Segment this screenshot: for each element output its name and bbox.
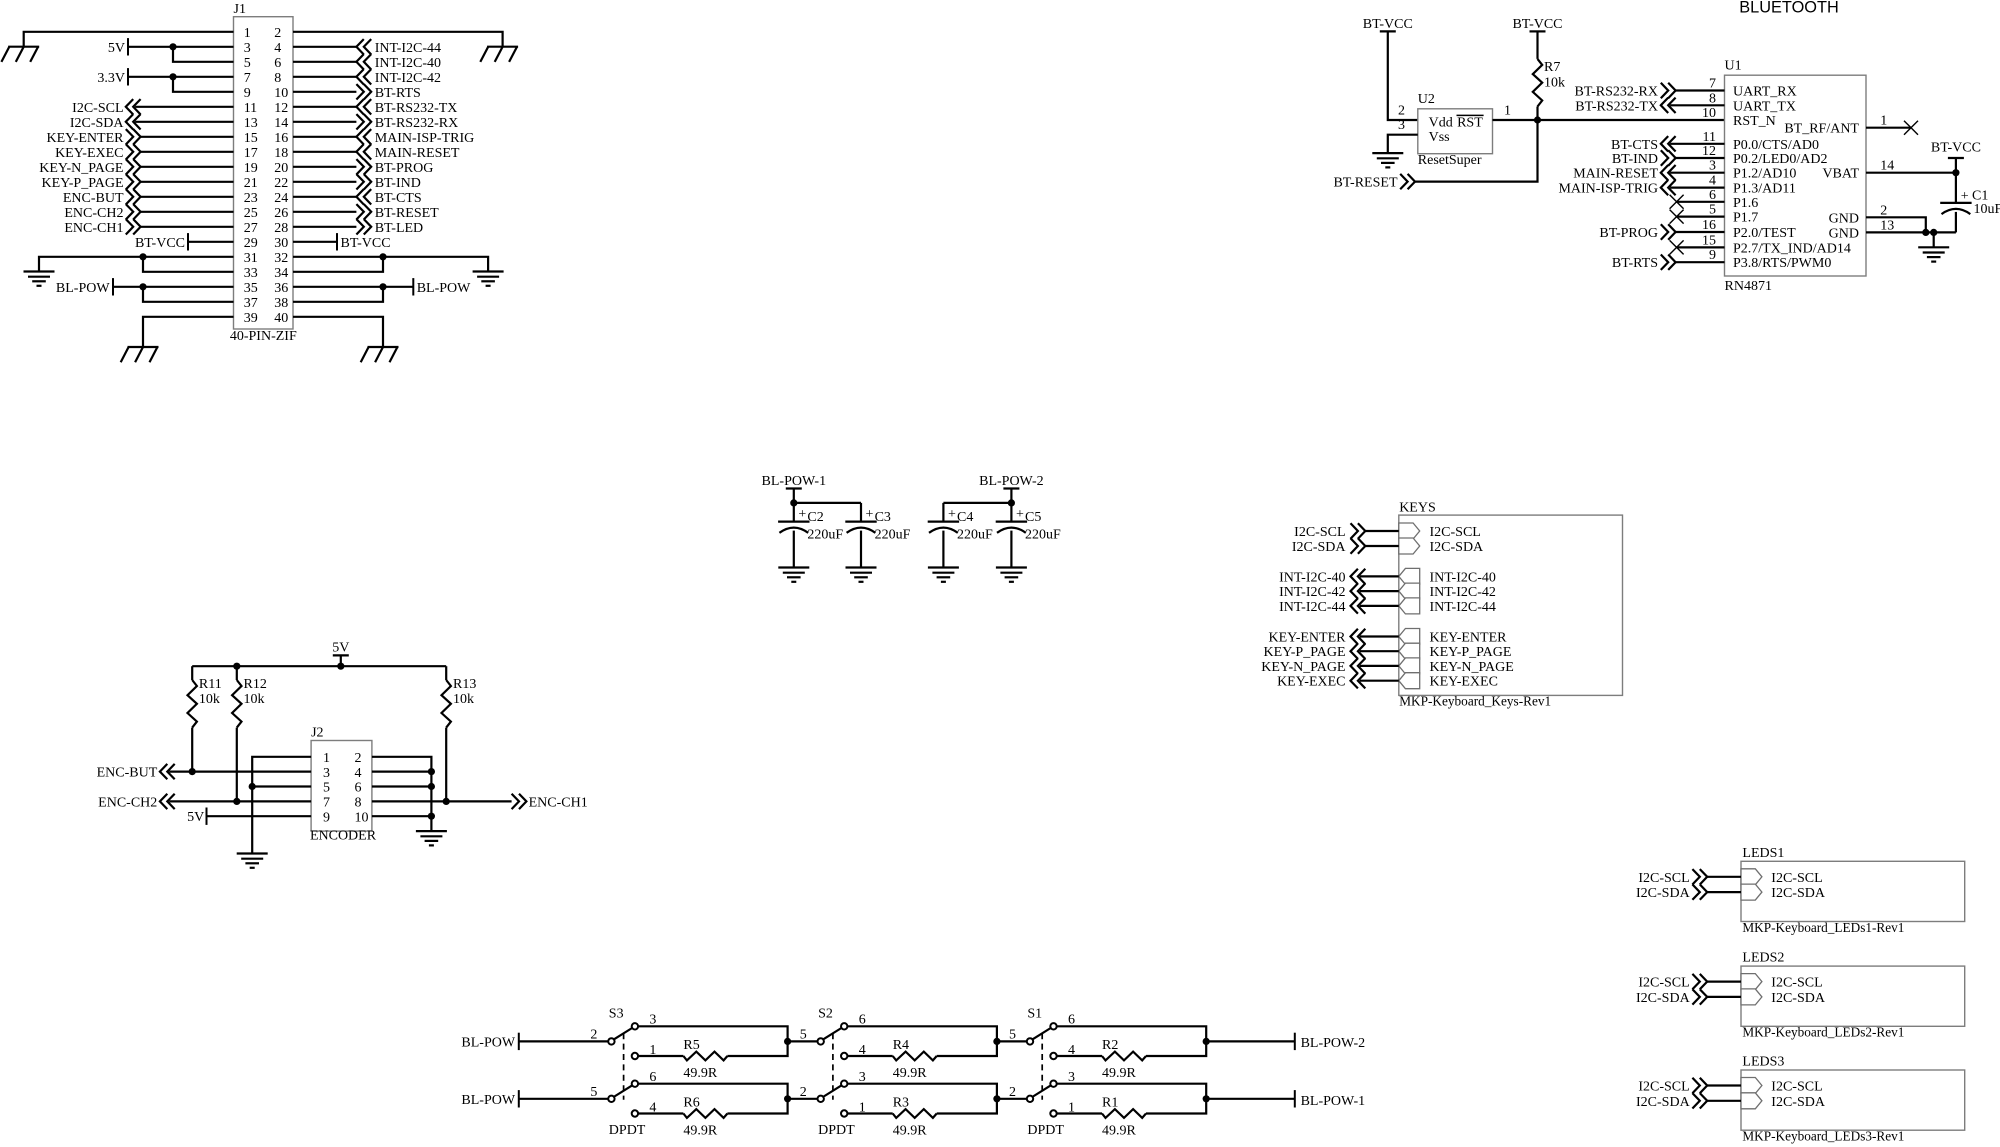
wire INT-I2C-42 to KEYS xyxy=(1360,590,1399,592)
resistor R3 49.9R xyxy=(847,1095,997,1138)
svg-text:R11: R11 xyxy=(199,677,222,692)
svg-text:49.9R: 49.9R xyxy=(683,1123,718,1138)
svg-text:ENC-CH2: ENC-CH2 xyxy=(64,206,123,221)
svg-text:INT-I2C-42: INT-I2C-42 xyxy=(1279,585,1345,600)
wire I2C-SCL to LEDS2 xyxy=(1707,980,1741,982)
svg-text:R6: R6 xyxy=(683,1095,699,1110)
svg-text:P2.7/TX_IND/AD14: P2.7/TX_IND/AD14 xyxy=(1733,241,1851,256)
global label I2C-SCL at LEDS1 xyxy=(1638,869,1707,886)
svg-text:11: 11 xyxy=(1703,130,1716,145)
svg-text:INT-I2C-44: INT-I2C-44 xyxy=(1279,600,1345,615)
junction S1 bottom output xyxy=(1203,1095,1210,1102)
svg-text:C4: C4 xyxy=(957,510,973,525)
svg-text:BL-POW: BL-POW xyxy=(417,281,471,296)
chassis ground top right xyxy=(480,47,518,62)
ground below C1 xyxy=(1918,232,1949,261)
svg-text:P1.6: P1.6 xyxy=(1733,196,1758,211)
wire I2C-SDA to J1 xyxy=(135,121,233,123)
svg-text:R13: R13 xyxy=(453,677,476,692)
wire MAIN-ISP-TRIG to U1 xyxy=(1670,187,1724,189)
svg-text:49.9R: 49.9R xyxy=(893,1066,928,1081)
wire KEY-EXEC to J1 xyxy=(141,151,234,153)
junction S2 bottom output xyxy=(993,1095,1000,1102)
sheet pin I2C-SCL on KEYS xyxy=(1399,523,1481,540)
svg-text:+: + xyxy=(798,507,806,522)
capacitor C1 10uF xyxy=(1940,173,2000,233)
junction RST node xyxy=(1534,116,1541,123)
wire J1 pins 32,34 to ground xyxy=(293,257,488,272)
svg-text:ENC-CH2: ENC-CH2 xyxy=(98,795,157,810)
junction S1 top output xyxy=(1203,1038,1210,1045)
global label ENC-BUT at encoder xyxy=(97,764,175,781)
ground below C2 xyxy=(778,568,809,582)
sheet LEDS1 MKP-Keyboard_LEDs1-Rev1 xyxy=(1741,846,1965,936)
svg-text:P1.3/AD11: P1.3/AD11 xyxy=(1733,182,1796,197)
svg-text:R5: R5 xyxy=(683,1038,699,1053)
wire BL-POW to J1 pins 35,37 xyxy=(113,287,234,302)
global label MAIN-ISP-TRIG at U1 xyxy=(1558,180,1675,197)
sheet pin I2C-SDA on KEYS xyxy=(1399,538,1484,555)
svg-text:6: 6 xyxy=(649,1070,656,1085)
svg-text:I2C-SCL: I2C-SCL xyxy=(1771,1080,1822,1095)
svg-text:BT-RS232-TX: BT-RS232-TX xyxy=(1575,99,1658,114)
wire BT-LED to J1 xyxy=(293,226,356,228)
global label BT-RTS at U1 xyxy=(1612,255,1676,272)
global label KEY-EXEC at KEYS xyxy=(1277,673,1365,690)
svg-text:5V: 5V xyxy=(108,41,125,56)
sheet pin INT-I2C-42 on KEYS xyxy=(1399,583,1496,600)
svg-text:18: 18 xyxy=(274,146,288,161)
svg-text:16: 16 xyxy=(1702,218,1716,233)
svg-text:UART_RX: UART_RX xyxy=(1733,85,1797,100)
wire J1 pin 39 to chassis ground xyxy=(143,317,234,347)
svg-text:40: 40 xyxy=(274,311,288,326)
svg-text:220uF: 220uF xyxy=(1025,528,1061,543)
wire U1 pin 13 to ground net xyxy=(1866,231,1956,233)
svg-text:MKP-Keyboard_LEDs2-Rev1: MKP-Keyboard_LEDs2-Rev1 xyxy=(1742,1026,1904,1041)
svg-text:R2: R2 xyxy=(1102,1038,1118,1053)
svg-text:I2C-SCL: I2C-SCL xyxy=(1430,525,1481,540)
global label KEY-ENTER at KEYS xyxy=(1269,629,1366,646)
svg-text:KEY-N_PAGE: KEY-N_PAGE xyxy=(39,161,123,176)
wire 3.3V to J1 pins 7 and 9 xyxy=(128,77,234,92)
global label BT-RTS at J1 right xyxy=(356,84,420,101)
svg-text:I2C-SDA: I2C-SDA xyxy=(1636,1095,1691,1110)
global label INT-I2C-40 at KEYS xyxy=(1279,569,1365,586)
wire BT-RESET to RST node xyxy=(1415,120,1538,182)
svg-text:13: 13 xyxy=(1880,218,1894,233)
svg-text:INT-I2C-42: INT-I2C-42 xyxy=(1430,585,1496,600)
svg-text:INT-I2C-40: INT-I2C-40 xyxy=(1430,570,1496,585)
global label ENC-CH1 xyxy=(512,794,588,811)
sheet pin I2C-SDA on LEDS3 xyxy=(1741,1093,1826,1110)
global label MAIN-RESET at U1 xyxy=(1573,165,1675,182)
junction 5V rail at R12 xyxy=(233,663,240,670)
wire 5V to J1 pins 3 and 5 xyxy=(128,47,234,62)
svg-text:I2C-SDA: I2C-SDA xyxy=(1771,991,1826,1006)
svg-text:P1.7: P1.7 xyxy=(1733,211,1758,226)
svg-text:I2C-SCL: I2C-SCL xyxy=(1638,871,1689,886)
global label I2C-SDA at LEDS3 xyxy=(1636,1093,1707,1110)
U1 pin 5 P1.7 xyxy=(1709,203,1758,226)
capacitor C4 220uF xyxy=(928,503,993,568)
svg-text:VBAT: VBAT xyxy=(1822,167,1859,182)
ground symbol left of J1 xyxy=(24,272,55,286)
sheet pin I2C-SCL on LEDS2 xyxy=(1741,974,1823,991)
wire ENC-BUT to J1 xyxy=(141,196,234,198)
svg-text:Vss: Vss xyxy=(1429,130,1450,145)
chassis ground top left xyxy=(1,47,39,62)
svg-text:BLUETOOTH: BLUETOOTH xyxy=(1739,0,1839,17)
U1 pin 12 P0.2/LED0/AD2 xyxy=(1702,144,1828,167)
svg-text:20: 20 xyxy=(274,161,288,176)
svg-text:I2C-SCL: I2C-SCL xyxy=(1771,871,1822,886)
svg-text:UART_TX: UART_TX xyxy=(1733,99,1796,114)
svg-text:49.9R: 49.9R xyxy=(893,1123,928,1138)
sheet pin INT-I2C-44 on KEYS xyxy=(1399,598,1496,615)
svg-text:RST: RST xyxy=(1457,116,1483,131)
svg-text:12: 12 xyxy=(1702,144,1716,159)
wire S2 to S1 top xyxy=(997,1040,1027,1042)
svg-text:10: 10 xyxy=(355,810,369,825)
power 5V above encoder xyxy=(332,640,349,666)
svg-text:BT-RS232-RX: BT-RS232-RX xyxy=(1574,85,1658,100)
junction 5V rail at 5V xyxy=(337,663,344,670)
svg-text:14: 14 xyxy=(1880,159,1894,174)
svg-text:BT-CTS: BT-CTS xyxy=(1611,138,1658,153)
wire I2C-SDA to LEDS1 xyxy=(1707,891,1741,893)
svg-text:+: + xyxy=(948,507,956,522)
wire S2 top throw to junction xyxy=(847,1026,997,1041)
wire U2 Vss pin 3 to ground xyxy=(1388,135,1418,153)
svg-text:4: 4 xyxy=(274,41,281,56)
no-connect U1 pin 15 xyxy=(1670,240,1725,254)
svg-text:KEY-P_PAGE: KEY-P_PAGE xyxy=(42,176,124,191)
svg-text:BT-VCC: BT-VCC xyxy=(1363,17,1413,32)
svg-text:BL-POW: BL-POW xyxy=(461,1036,515,1051)
junction pin36 xyxy=(379,283,386,290)
connector J2 ENCODER xyxy=(310,726,377,844)
svg-text:I2C-SDA: I2C-SDA xyxy=(70,116,125,131)
svg-text:BT-RTS: BT-RTS xyxy=(375,86,421,101)
svg-text:5: 5 xyxy=(1709,203,1716,218)
svg-text:+: + xyxy=(1016,507,1024,522)
svg-text:INT-I2C-44: INT-I2C-44 xyxy=(1430,600,1496,615)
svg-text:P3.8/RTS/PWM0: P3.8/RTS/PWM0 xyxy=(1733,256,1831,271)
global label BT-PROG at J1 right xyxy=(356,159,433,176)
power label BL-POW left top xyxy=(461,1033,518,1051)
svg-text:2: 2 xyxy=(1398,104,1405,119)
junction S2 top output xyxy=(993,1038,1000,1045)
wire ENC-CH2 to J1 xyxy=(141,211,234,213)
wire S3 top throw to junction xyxy=(638,1026,788,1041)
wire I2C-SCL to LEDS1 xyxy=(1707,876,1741,878)
global label BT-RS232-RX at U1 xyxy=(1574,83,1675,100)
svg-text:1: 1 xyxy=(323,751,330,766)
wire U1 pin 2 to ground net xyxy=(1866,217,1926,232)
svg-text:S1: S1 xyxy=(1027,1007,1042,1022)
svg-text:I2C-SDA: I2C-SDA xyxy=(1771,1095,1826,1110)
global label ENC-CH1 at J1 xyxy=(64,219,140,236)
wire BT-RTS to J1 xyxy=(293,91,356,93)
svg-text:10k: 10k xyxy=(199,692,220,707)
svg-text:ENCODER: ENCODER xyxy=(310,829,377,844)
svg-text:3: 3 xyxy=(244,41,251,56)
wire BL-POW-1 to C2 C3 xyxy=(794,502,861,504)
power BT-VCC above R7 xyxy=(1512,17,1562,32)
svg-text:17: 17 xyxy=(244,146,258,161)
U1 pin 14 VBAT xyxy=(1822,159,1894,182)
svg-text:RN4871: RN4871 xyxy=(1725,279,1772,294)
wire BT-RESET to J1 xyxy=(293,211,356,213)
wire BT-IND to J1 xyxy=(293,181,356,183)
svg-text:KEY-ENTER: KEY-ENTER xyxy=(1269,631,1347,646)
wire INT-I2C-44 to J1 xyxy=(293,46,356,48)
sheet pin I2C-SDA on LEDS1 xyxy=(1741,884,1826,901)
svg-text:16: 16 xyxy=(274,131,288,146)
global label BT-RS232-RX at J1 right xyxy=(356,114,458,131)
wire INT-I2C-40 to J1 xyxy=(293,61,356,63)
wire S2 to S1 bottom xyxy=(997,1098,1027,1100)
global label I2C-SDA at LEDS2 xyxy=(1636,989,1707,1006)
wire S3 to S2 top xyxy=(788,1040,818,1042)
svg-text:LEDS2: LEDS2 xyxy=(1742,951,1784,966)
svg-text:1: 1 xyxy=(1504,104,1511,119)
svg-text:S2: S2 xyxy=(818,1007,833,1022)
junction 5V xyxy=(169,43,176,50)
svg-text:3: 3 xyxy=(649,1012,656,1027)
IC U2 ResetSuper xyxy=(1418,92,1493,168)
global label BT-IND at U1 xyxy=(1612,150,1676,167)
wire J1 pins 31,33 to ground xyxy=(39,257,234,272)
resistor R13 10k xyxy=(442,666,477,801)
svg-text:31: 31 xyxy=(244,251,258,266)
svg-text:29: 29 xyxy=(244,236,258,251)
wire KEY-EXEC to KEYS xyxy=(1360,680,1399,682)
wire J1 pin 2 to chassis ground xyxy=(293,32,503,47)
svg-text:49.9R: 49.9R xyxy=(1102,1066,1137,1081)
wire MAIN-RESET to J1 xyxy=(293,151,356,153)
svg-text:INT-I2C-44: INT-I2C-44 xyxy=(375,41,441,56)
svg-text:R1: R1 xyxy=(1102,1095,1118,1110)
wire BL-POW to S3 pin 5 xyxy=(519,1098,609,1100)
global label I2C-SCL at KEYS xyxy=(1294,523,1365,540)
svg-text:C2: C2 xyxy=(807,510,823,525)
svg-text:S3: S3 xyxy=(609,1007,624,1022)
svg-text:DPDT: DPDT xyxy=(609,1123,646,1138)
svg-text:22: 22 xyxy=(274,176,288,191)
U1 pin 2 GND xyxy=(1829,203,1888,226)
U1 pin 1 BT_RF/ANT no-connect xyxy=(1784,114,1918,137)
global label KEY-N_PAGE at KEYS xyxy=(1261,658,1365,675)
svg-text:10k: 10k xyxy=(244,692,265,707)
junction J2 pin4 xyxy=(428,768,435,775)
global label BT-RS232-TX at J1 right xyxy=(356,99,457,116)
switch S2 DPDT xyxy=(800,1007,866,1139)
power label 5V at J1 pin 3 xyxy=(108,38,128,56)
svg-text:220uF: 220uF xyxy=(875,528,911,543)
svg-text:I2C-SCL: I2C-SCL xyxy=(1638,976,1689,991)
wire BT-RTS to U1 xyxy=(1676,261,1725,263)
global label I2C-SCL at LEDS2 xyxy=(1638,974,1707,991)
U1 pin 11 P0.0/CTS/AD0 xyxy=(1703,130,1819,153)
svg-text:BT-RS232-TX: BT-RS232-TX xyxy=(375,101,458,116)
wire MAIN-ISP-TRIG to J1 xyxy=(293,136,356,138)
svg-text:BT_RF/ANT: BT_RF/ANT xyxy=(1784,122,1859,137)
svg-text:26: 26 xyxy=(274,206,288,221)
svg-text:ResetSuper: ResetSuper xyxy=(1418,153,1482,168)
global label INT-I2C-42 at KEYS xyxy=(1279,583,1365,600)
svg-text:J2: J2 xyxy=(311,726,323,741)
svg-text:220uF: 220uF xyxy=(807,528,843,543)
sheet title BLUETOOTH xyxy=(1739,0,1839,17)
junction VBAT node xyxy=(1952,169,1959,176)
wire INT-I2C-40 to KEYS xyxy=(1360,575,1399,577)
wire S1 top to BL-POW-2 xyxy=(1206,1040,1295,1042)
wire BT-IND to U1 xyxy=(1676,157,1725,159)
global label INT-I2C-44 at KEYS xyxy=(1279,598,1365,615)
svg-text:P1.2/AD10: P1.2/AD10 xyxy=(1733,167,1796,182)
svg-text:35: 35 xyxy=(244,281,258,296)
svg-text:8: 8 xyxy=(355,796,362,811)
wire ENC-CH1 to J1 xyxy=(141,226,234,228)
svg-text:33: 33 xyxy=(244,266,258,281)
svg-text:I2C-SDA: I2C-SDA xyxy=(1636,886,1691,901)
svg-text:32: 32 xyxy=(274,251,288,266)
svg-text:BT-VCC: BT-VCC xyxy=(135,236,185,251)
svg-text:MAIN-ISP-TRIG: MAIN-ISP-TRIG xyxy=(375,131,475,146)
U2 pin number 3 xyxy=(1398,118,1405,133)
svg-text:P0.0/CTS/AD0: P0.0/CTS/AD0 xyxy=(1733,138,1819,153)
svg-text:2: 2 xyxy=(590,1028,597,1043)
svg-text:10: 10 xyxy=(274,86,288,101)
global label MAIN-RESET at J1 right xyxy=(356,144,460,161)
junction BL-POW-1 xyxy=(790,499,797,506)
global label KEY-P_PAGE at J1 xyxy=(42,174,141,191)
wire BL-POW-2 to C4 C5 xyxy=(943,502,1011,504)
svg-text:3.3V: 3.3V xyxy=(97,71,125,86)
U2 pin number 1 xyxy=(1504,104,1511,119)
wire BT-CTS to J1 xyxy=(293,196,356,198)
svg-text:15: 15 xyxy=(244,131,258,146)
svg-text:2: 2 xyxy=(1880,203,1887,218)
svg-text:3: 3 xyxy=(1709,159,1716,174)
svg-text:MAIN-RESET: MAIN-RESET xyxy=(375,146,460,161)
svg-text:10k: 10k xyxy=(453,692,474,707)
ground below J2 right xyxy=(416,831,447,845)
junction BL-POW-2 xyxy=(1008,499,1015,506)
wire 5V rail xyxy=(192,665,446,667)
svg-text:RST_N: RST_N xyxy=(1733,114,1776,129)
sheet pin INT-I2C-40 on KEYS xyxy=(1399,568,1496,585)
U1 pin 15 P2.7/TX_IND/AD14 xyxy=(1702,233,1851,256)
svg-text:BT-VCC: BT-VCC xyxy=(1512,17,1562,32)
svg-text:I2C-SCL: I2C-SCL xyxy=(72,101,123,116)
sheet pin I2C-SDA on LEDS2 xyxy=(1741,989,1826,1006)
svg-text:3: 3 xyxy=(1068,1070,1075,1085)
svg-text:2: 2 xyxy=(355,751,362,766)
chassis ground bottom right xyxy=(361,347,399,362)
resistor R11 10k xyxy=(188,666,222,771)
svg-text:5: 5 xyxy=(590,1085,597,1100)
wire RST node to U1 RST_N xyxy=(1538,119,1725,121)
svg-text:KEY-EXEC: KEY-EXEC xyxy=(55,146,123,161)
svg-text:4: 4 xyxy=(1709,174,1716,189)
ground symbol right of J1 xyxy=(473,272,504,286)
wire I2C-SDA to KEYS xyxy=(1365,545,1399,547)
wire MAIN-RESET to U1 xyxy=(1670,172,1724,174)
wire BL-POW to S3 pin 2 xyxy=(519,1040,609,1042)
power label BT-VCC at J1 pin 29 xyxy=(135,233,234,251)
svg-text:15: 15 xyxy=(1702,233,1716,248)
svg-text:220uF: 220uF xyxy=(957,528,993,543)
sheet pin KEY-P_PAGE on KEYS xyxy=(1399,643,1512,660)
wire J2 pins 2,4,6,10 to ground xyxy=(372,757,432,831)
svg-text:BT-RESET: BT-RESET xyxy=(1333,176,1397,191)
svg-text:BT-PROG: BT-PROG xyxy=(1599,226,1658,241)
svg-text:MAIN-ISP-TRIG: MAIN-ISP-TRIG xyxy=(1558,182,1658,197)
power label BT-VCC at J1 pin 30 xyxy=(293,233,391,251)
svg-text:49.9R: 49.9R xyxy=(683,1066,718,1081)
wire I2C-SCL to KEYS xyxy=(1365,530,1399,532)
svg-text:KEY-ENTER: KEY-ENTER xyxy=(47,131,125,146)
svg-text:KEY-EXEC: KEY-EXEC xyxy=(1430,675,1498,690)
U1 pin 13 GND xyxy=(1829,218,1895,241)
svg-text:8: 8 xyxy=(1709,91,1716,106)
wire BL-POW to J1 pins 36,38 xyxy=(293,287,413,302)
svg-text:BL-POW: BL-POW xyxy=(461,1093,515,1108)
svg-text:MAIN-RESET: MAIN-RESET xyxy=(1573,167,1658,182)
junction R12 ENC-CH2 xyxy=(233,798,240,805)
junction gnd a xyxy=(1922,229,1929,236)
svg-text:BL-POW-1: BL-POW-1 xyxy=(1301,1094,1366,1109)
global label I2C-SDA at J1 xyxy=(70,114,141,131)
svg-text:I2C-SDA: I2C-SDA xyxy=(1430,540,1485,555)
wire I2C-SDA to LEDS3 xyxy=(1707,1100,1741,1102)
resistor R1 49.9R xyxy=(1056,1095,1206,1138)
wire J1 pin 40 to chassis ground xyxy=(293,317,383,347)
svg-text:5: 5 xyxy=(244,56,251,71)
svg-text:3: 3 xyxy=(323,766,330,781)
svg-text:ENC-BUT: ENC-BUT xyxy=(63,191,124,206)
svg-text:J1: J1 xyxy=(234,2,246,17)
svg-text:BL-POW-1: BL-POW-1 xyxy=(762,474,827,489)
svg-text:ENC-BUT: ENC-BUT xyxy=(97,766,158,781)
svg-text:P2.0/TEST: P2.0/TEST xyxy=(1733,226,1796,241)
power label BL-POW-1 right xyxy=(1295,1090,1365,1109)
svg-text:3: 3 xyxy=(1398,118,1405,133)
global label BT-CTS at U1 xyxy=(1611,136,1676,153)
IC U1 RN4871 xyxy=(1725,59,1867,295)
svg-text:21: 21 xyxy=(244,176,258,191)
global label KEY-P_PAGE at KEYS xyxy=(1264,644,1366,661)
svg-text:+: + xyxy=(1961,189,1969,204)
ground below C5 xyxy=(996,568,1027,582)
global label INT-I2C-42 at J1 right xyxy=(356,69,441,86)
wire KEY-ENTER to KEYS xyxy=(1360,635,1399,637)
svg-text:7: 7 xyxy=(323,796,330,811)
global label I2C-SDA at KEYS xyxy=(1292,538,1365,555)
wire BT-PROG to U1 xyxy=(1676,231,1725,233)
sheet LEDS2 MKP-Keyboard_LEDs2-Rev1 xyxy=(1741,951,1965,1041)
svg-text:BT-RTS: BT-RTS xyxy=(1612,256,1658,271)
svg-text:6: 6 xyxy=(1709,188,1716,203)
power BL-POW-1 xyxy=(762,474,827,503)
resistor R2 49.9R xyxy=(1056,1038,1206,1081)
svg-text:LEDS1: LEDS1 xyxy=(1742,846,1784,861)
resistor R7 10k xyxy=(1533,31,1565,120)
svg-text:DPDT: DPDT xyxy=(818,1123,855,1138)
